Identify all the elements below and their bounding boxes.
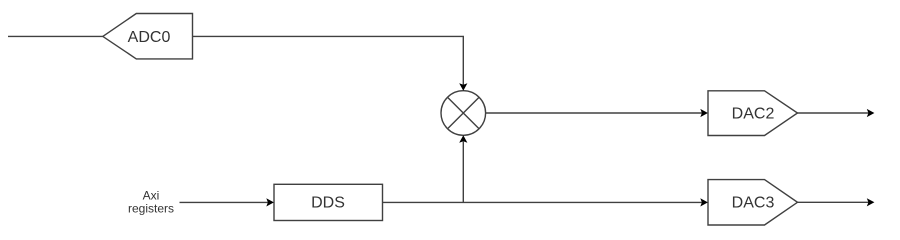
arrowhead into DDS	[266, 198, 274, 206]
svg-text:DAC3: DAC3	[732, 195, 775, 212]
svg-text:registers: registers	[128, 202, 174, 216]
block ADC0	[103, 14, 193, 59]
svg-text:DDS: DDS	[311, 195, 345, 212]
wire input to ADC0	[8, 35, 103, 37]
arrowhead DAC3 output	[867, 198, 875, 206]
svg-text:ADC0: ADC0	[128, 29, 171, 46]
block DAC2	[708, 91, 798, 136]
wire DDS to DAC3	[383, 201, 703, 203]
mixer U1 circle	[441, 91, 486, 136]
wire mixer to DAC2	[486, 112, 702, 114]
wire DAC2 output	[798, 112, 869, 114]
arrowhead DAC2 output	[867, 109, 875, 117]
block DDS	[274, 184, 383, 220]
block DAC3	[708, 180, 798, 225]
wire ADC0 to mixer (down into top)	[193, 36, 464, 85]
svg-text:Axi: Axi	[143, 189, 160, 203]
svg-text:DAC2: DAC2	[732, 106, 775, 123]
arrowhead into DAC3	[700, 198, 708, 206]
mixer U1 X diagonals	[448, 97, 480, 129]
wire DAC3 output	[798, 201, 869, 203]
wire Axi registers to DDS	[180, 201, 269, 203]
arrowhead into mixer top	[459, 83, 467, 91]
arrowhead into mixer bottom	[459, 135, 467, 143]
wire junction up to mixer bottom	[462, 142, 464, 203]
arrowhead into DAC2	[700, 109, 708, 117]
